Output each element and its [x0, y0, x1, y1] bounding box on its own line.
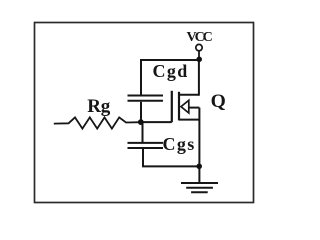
svg-text:Rg: Rg — [87, 96, 111, 117]
svg-text:Cgd: Cgd — [153, 61, 188, 81]
svg-text:Q: Q — [211, 91, 226, 112]
svg-text:VCC: VCC — [187, 30, 213, 45]
svg-text:Cgs: Cgs — [163, 134, 195, 154]
